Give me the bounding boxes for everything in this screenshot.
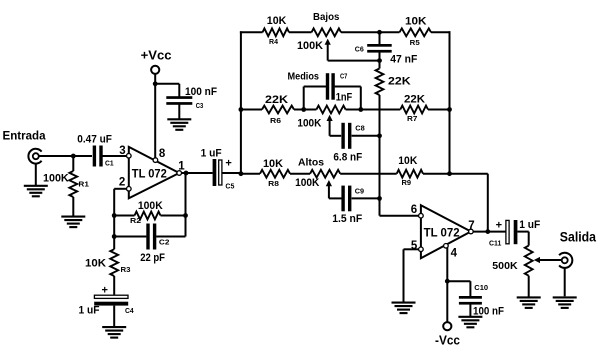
svg-text:C9: C9: [355, 186, 364, 195]
svg-text:TL 072: TL 072: [424, 225, 460, 239]
svg-text:Medios: Medios: [288, 71, 320, 83]
svg-text:22K: 22K: [265, 94, 288, 106]
svg-text:1nF: 1nF: [336, 92, 353, 104]
svg-text:Salida: Salida: [560, 229, 596, 245]
svg-text:8: 8: [159, 148, 166, 160]
svg-text:4: 4: [451, 247, 458, 259]
svg-text:R2: R2: [130, 216, 141, 225]
svg-text:C6: C6: [355, 45, 364, 54]
svg-text:Bajos: Bajos: [313, 12, 340, 23]
svg-text:C2: C2: [159, 238, 170, 247]
svg-text:C11: C11: [489, 239, 501, 248]
svg-text:+: +: [496, 220, 502, 232]
svg-text:10K: 10K: [85, 258, 106, 270]
svg-text:+: +: [102, 285, 108, 297]
svg-text:500K: 500K: [492, 260, 518, 272]
svg-text:C3: C3: [196, 101, 204, 110]
svg-text:22 pF: 22 pF: [140, 252, 165, 264]
svg-text:2: 2: [119, 176, 125, 188]
svg-text:TL 072: TL 072: [132, 167, 167, 181]
svg-text:10K: 10K: [263, 158, 283, 170]
svg-text:C1: C1: [105, 159, 114, 168]
svg-text:R7: R7: [407, 114, 417, 123]
svg-text:R8: R8: [268, 179, 279, 188]
svg-text:1 uF: 1 uF: [79, 305, 100, 317]
svg-text:10K: 10K: [398, 155, 417, 167]
svg-text:3: 3: [119, 145, 125, 157]
svg-text:47 nF: 47 nF: [390, 54, 417, 66]
svg-text:100K: 100K: [295, 177, 319, 189]
svg-text:100K: 100K: [297, 40, 323, 52]
svg-text:Altos: Altos: [298, 157, 324, 169]
svg-text:1: 1: [178, 161, 185, 173]
svg-text:+Vcc: +Vcc: [141, 48, 172, 63]
svg-text:100K: 100K: [297, 118, 321, 130]
svg-text:+: +: [225, 157, 231, 169]
svg-text:10K: 10K: [405, 16, 427, 28]
svg-text:R4: R4: [269, 37, 279, 46]
svg-text:100K: 100K: [43, 173, 69, 185]
svg-text:C7: C7: [340, 72, 347, 81]
svg-text:1.5 nF: 1.5 nF: [332, 213, 362, 225]
svg-text:100 nF: 100 nF: [185, 86, 217, 98]
svg-text:C4: C4: [125, 306, 134, 315]
svg-text:C5: C5: [225, 182, 234, 191]
svg-text:0.47 uF: 0.47 uF: [77, 134, 112, 146]
svg-text:R1: R1: [78, 180, 89, 189]
svg-text:6: 6: [411, 204, 417, 216]
svg-text:R9: R9: [402, 178, 412, 187]
svg-text:C8: C8: [355, 124, 365, 133]
svg-text:1 uF: 1 uF: [519, 219, 540, 231]
svg-text:22K: 22K: [404, 94, 425, 106]
svg-text:Entrada: Entrada: [3, 129, 46, 143]
svg-text:-Vcc: -Vcc: [435, 334, 460, 348]
svg-text:1 uF: 1 uF: [201, 147, 222, 159]
svg-text:22K: 22K: [388, 76, 411, 88]
svg-text:C10: C10: [474, 283, 488, 292]
svg-text:100 nF: 100 nF: [473, 306, 504, 318]
svg-text:R3: R3: [121, 265, 131, 274]
svg-text:6.8 nF: 6.8 nF: [333, 152, 362, 164]
svg-text:7: 7: [468, 220, 474, 232]
svg-text:R6: R6: [270, 116, 281, 125]
svg-text:100K: 100K: [138, 200, 163, 212]
svg-text:R5: R5: [410, 38, 420, 47]
svg-text:10K: 10K: [267, 15, 287, 27]
